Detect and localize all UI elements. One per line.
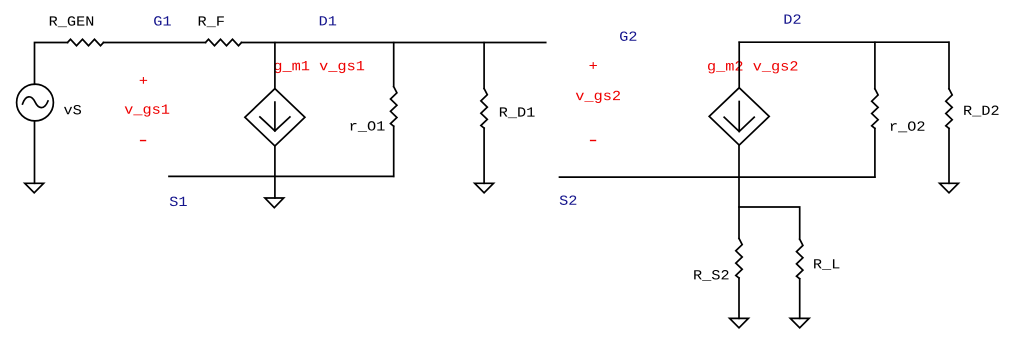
- ground R_L: [790, 318, 809, 327]
- wire below source 1: [274, 146, 276, 198]
- wire r_O2 bottom: [874, 128, 876, 177]
- label plus v_gs2: [589, 62, 596, 69]
- dependent current source g_m2 v_gs2: [709, 88, 769, 145]
- wire D2 stem: [738, 42, 740, 87]
- node D2: [785, 14, 801, 23]
- label R_F: [199, 16, 224, 27]
- resistor R_F: [206, 39, 242, 45]
- wire top rail segment D1: [242, 42, 546, 44]
- resistor r_O2: [872, 89, 878, 129]
- label r_O1: [351, 121, 385, 132]
- label minus v_gs2: [590, 140, 596, 141]
- ground R_D2: [940, 183, 959, 193]
- wire r_O2 top: [874, 42, 876, 89]
- wire top rail segment vS to R_GEN: [35, 43, 68, 85]
- wire R_D1 bottom: [483, 128, 485, 183]
- wire r_O1 top: [393, 43, 395, 87]
- label g_m1 v_gs1: [274, 61, 364, 73]
- resistor R_L: [797, 239, 803, 279]
- node G1: [154, 16, 171, 25]
- voltage source vS: [17, 84, 54, 121]
- wire R_D2 top: [948, 42, 950, 89]
- label g_m2 v_gs2: [708, 61, 797, 73]
- wire R_D1 top: [483, 43, 485, 89]
- wire vS bottom: [34, 121, 36, 183]
- label R_D2: [964, 106, 998, 117]
- wire top rail segment R_GEN to R_F: [104, 42, 206, 44]
- label R_S2: [694, 270, 728, 281]
- wire branch to R_L: [739, 207, 800, 239]
- wire D1 stem: [274, 43, 276, 89]
- resistor R_D1: [481, 89, 487, 129]
- wire R_L bottom: [799, 279, 801, 319]
- wire top rail stage 2: [739, 41, 948, 43]
- node G2: [620, 31, 636, 40]
- node S2: [560, 195, 577, 204]
- resistor r_O1: [391, 87, 397, 127]
- resistor R_S2: [736, 238, 742, 278]
- label R_GEN: [50, 16, 93, 27]
- ground below source 1: [265, 198, 284, 208]
- label v_gs2: [576, 91, 620, 103]
- dependent current source g_m1 v_gs1: [245, 89, 305, 146]
- wire below source 2: [738, 145, 740, 238]
- label R_L: [814, 259, 839, 270]
- wire r_O1 bottom: [393, 126, 395, 176]
- wire R_D2 bottom: [948, 128, 950, 183]
- wire R_S2 bottom: [738, 278, 740, 318]
- label plus v_gs1: [140, 77, 147, 84]
- ground vS: [25, 183, 44, 193]
- resistor R_GEN: [68, 39, 104, 45]
- label vS: [64, 105, 81, 114]
- resistor R_D2: [946, 89, 952, 129]
- node S1: [170, 197, 187, 206]
- node D1: [320, 16, 336, 25]
- ground R_D1: [475, 183, 494, 193]
- ground R_S2: [730, 318, 749, 327]
- wire S1 rail: [169, 175, 394, 177]
- label r_O2: [891, 121, 925, 132]
- label R_D1: [500, 107, 535, 118]
- label v_gs1: [125, 105, 170, 117]
- wire S2 rail: [560, 176, 875, 178]
- label minus v_gs1: [140, 140, 146, 141]
